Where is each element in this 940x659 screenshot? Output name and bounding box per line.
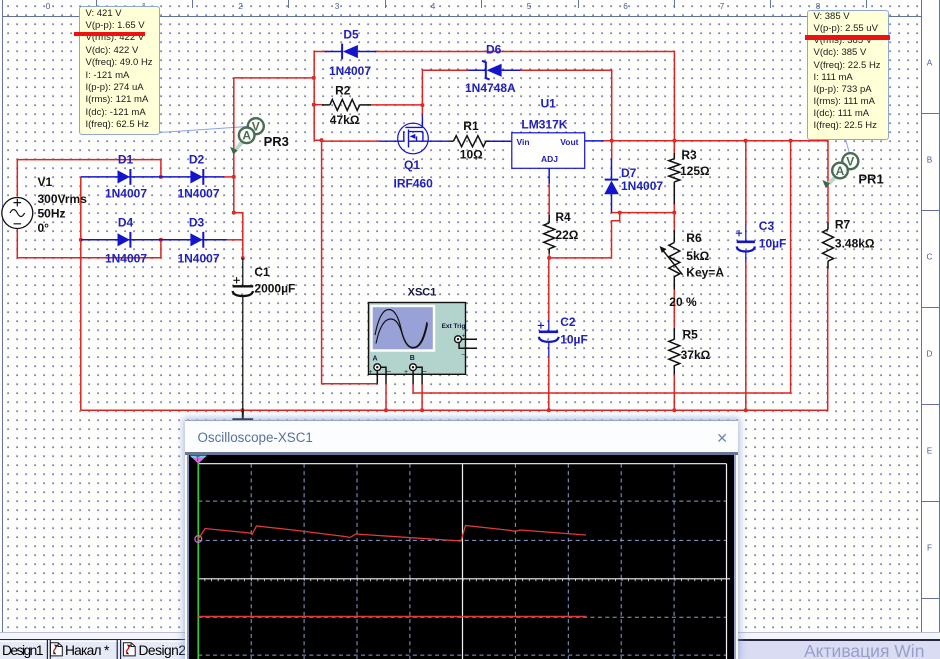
svg-text:–: – [387,366,392,375]
svg-text:2: 2 [238,2,243,11]
regulator U1 LM317K [512,96,604,183]
svg-text:C: C [927,253,933,262]
diode D1 [105,153,147,201]
svg-text:Ext Trig: Ext Trig [442,323,466,330]
wire bridge top row [81,176,224,178]
resistor R1 [451,119,512,161]
svg-text:4: 4 [431,2,436,11]
wire input jog [314,140,377,384]
svg-text:V1: V1 [38,175,53,189]
wire D6 branch [422,70,611,141]
svg-text:3: 3 [335,2,340,11]
svg-text:D1: D1 [118,153,134,167]
wire ADJ to R4 [548,183,550,216]
wire ground rail [81,268,828,410]
capacitor C3 [736,219,787,262]
transistor Q1 [379,115,451,191]
svg-text:F: F [927,544,932,553]
svg-text:D7: D7 [621,166,637,180]
wire R3 top lead [673,141,675,153]
wire ext trig stubs [459,339,477,348]
svg-text:Vout: Vout [560,137,578,147]
svg-text:10µF: 10µF [759,236,787,250]
svg-text:0: 0 [46,2,51,11]
wire D5 rail [314,52,674,141]
svg-text:A: A [373,356,378,363]
svg-text:125Ω: 125Ω [680,164,710,178]
svg-text:1N4007: 1N4007 [177,251,219,265]
svg-text:R5: R5 [683,328,699,342]
resistor R4 [544,210,579,254]
svg-text:D3: D3 [189,215,205,229]
wire R5 to ground [673,375,675,411]
svg-text:T: T [196,457,200,463]
svg-text:PR3: PR3 [264,134,289,149]
svg-text:B: B [410,355,415,362]
svg-text:Key=A: Key=A [686,265,724,279]
oscilloscope instrument XSC1 [369,286,466,376]
leader line to PR3 tooltip [152,127,248,134]
svg-text:IRF460: IRF460 [394,176,434,190]
svg-text:7: 7 [720,2,725,11]
wire R2 left [314,104,322,106]
wire adj feedback jog [549,213,620,258]
svg-text:A: A [836,164,845,178]
wire C3 vertical [745,141,747,411]
svg-text:22Ω: 22Ω [555,228,578,242]
wire R6 top lead [673,213,675,230]
svg-text:50Hz: 50Hz [38,206,66,220]
svg-text:5: 5 [527,2,532,11]
svg-text:A: A [242,129,251,143]
svg-text:0°: 0° [38,221,50,235]
sheet border frame [922,0,940,632]
wire bridge positive vertical [234,78,243,258]
svg-text:20 %: 20 % [669,295,697,309]
wire bridge D3 stub [227,239,243,241]
oscilloscope window XSC1 [185,420,738,659]
zener diode D6 [465,43,521,96]
svg-text:3.48kΩ: 3.48kΩ [835,236,875,250]
svg-text:U1: U1 [541,96,557,110]
svg-text:R6: R6 [686,231,702,245]
wire D7 top lead [611,141,613,159]
scope trigger cursor line [197,463,199,659]
svg-text:5kΩ: 5kΩ [686,249,709,263]
svg-text:R7: R7 [835,218,851,232]
red annotation mark right [805,35,890,40]
wire bridge bottom row [81,239,227,241]
svg-text:C1: C1 [254,265,270,279]
wire R6 to R5 [673,289,675,328]
wire R3 bottom lead [673,204,675,213]
capacitor C1 [233,258,296,410]
wire bridge D2 stub [224,176,234,178]
resistor R2 [322,84,371,127]
svg-text:Vin: Vin [517,137,530,147]
scope channel B trace [198,616,586,618]
wire input node vertical [313,52,315,141]
wire R4 to C2 [548,253,550,410]
scope channel A marker [195,536,202,543]
svg-text:1N4007: 1N4007 [105,251,147,265]
scope graticule [198,464,726,659]
wire scope B minus to ground [421,384,423,411]
svg-text:D6: D6 [486,43,502,57]
svg-text:1N4748A: 1N4748A [465,81,516,95]
svg-text:D: D [927,350,933,359]
svg-text:10µF: 10µF [560,332,588,346]
svg-text:E: E [927,447,933,456]
svg-text:47kΩ: 47kΩ [330,113,360,127]
resistor R7 [823,218,875,269]
svg-text:D2: D2 [189,153,205,167]
svg-text:R4: R4 [555,210,571,224]
svg-text:C3: C3 [759,219,775,233]
wire D7 to R3 bottom [612,212,675,214]
wire scope B rail [413,141,790,393]
svg-text:6: 6 [623,2,628,11]
diode D4 [105,215,147,265]
svg-text:1N4007: 1N4007 [621,179,663,193]
svg-text:10Ω: 10Ω [460,147,483,161]
wire Vout rail [603,141,828,223]
wire bridge negative vertical [80,177,82,410]
svg-text:*: * [104,643,110,658]
scope trigger marker [190,456,207,464]
capacitor C2 [538,315,588,357]
wire V1 top to bridge [17,160,161,197]
svg-text:R3: R3 [681,148,697,162]
probe PR1 [822,153,883,188]
svg-text:Накал: Накал [65,643,102,658]
leader line to PR1 tooltip [846,139,850,154]
svg-text:+: + [404,369,408,376]
svg-text:ADJ: ADJ [541,154,558,164]
svg-text:Design1: Design1 [2,643,44,658]
svg-text:1N4007: 1N4007 [177,187,219,201]
svg-text:37kΩ: 37kΩ [681,348,711,362]
diode D2 [177,153,219,201]
svg-text:1N4007: 1N4007 [329,64,371,78]
scope channel A trace [198,526,586,542]
wire to Q1 gate [322,140,380,142]
svg-text:2000µF: 2000µF [254,282,295,296]
AC source V1 [2,175,87,235]
wire scope A leads [377,367,386,384]
svg-text:D4: D4 [118,215,134,229]
svg-text:B: B [927,156,933,165]
wire R2 right [371,104,423,106]
svg-text:D5: D5 [343,28,359,42]
wire V1 bottom to bridge [17,229,161,258]
resistor R5 [669,328,711,375]
ground [232,410,253,419]
svg-text:XSC1: XSC1 [408,286,437,298]
svg-text:300Vrms: 300Vrms [38,192,88,206]
probe tooltip PR3 [79,6,160,135]
probe PR3 [230,118,289,155]
svg-text:C2: C2 [560,315,576,329]
sheet tabs [0,640,200,659]
svg-text:Design2: Design2 [139,643,187,658]
potentiometer R6 [660,230,725,309]
resistor R3 [669,148,710,204]
svg-text:1N4007: 1N4007 [105,187,147,201]
wire scope B leads [413,367,422,384]
probe tooltip PR1 [807,10,889,140]
svg-text:R2: R2 [335,84,351,98]
wire positive rail to input node [234,77,314,79]
svg-text:PR1: PR1 [858,171,883,186]
svg-text:LM317K: LM317K [521,117,567,131]
red annotation mark left [74,32,145,37]
diode D5 [325,28,376,78]
diode D3 [177,215,219,265]
svg-text:A: A [927,59,933,68]
svg-text:R1: R1 [463,119,479,133]
wire scope A minus to ground [385,384,387,411]
svg-text:+: + [369,369,373,376]
diode D7 [604,159,663,213]
svg-text:Q1: Q1 [404,158,420,172]
